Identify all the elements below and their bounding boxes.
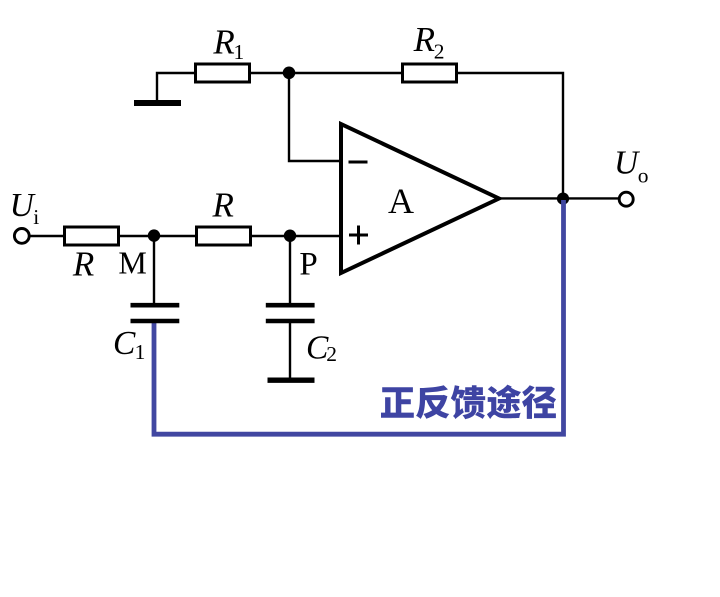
terminal Ui [14,229,29,244]
wire node down to inverting input [289,73,341,161]
svg-text:2: 2 [326,342,337,366]
op-amp minus pin label [349,161,368,164]
wire opamp output to terminal [499,197,620,199]
wire C2 bottom to ground bar [289,323,291,379]
ground (top-left) [134,100,181,106]
resistor R2 [403,64,457,82]
svg-text:M: M [118,245,146,281]
label 正反馈途径 (positive feedback path, drawn as glyph outlines) [381,385,556,420]
capacitor C1 [131,305,180,321]
wire R1 to R2 through node [250,72,402,74]
wire Ui terminal to R [29,235,64,237]
svg-text:1: 1 [135,340,146,364]
svg-text:1: 1 [234,40,245,64]
svg-text:i: i [33,205,39,229]
svg-text:C: C [113,325,136,362]
wire R2 right to corner [457,73,563,198]
op-amp plus pin label [349,226,368,245]
node output [557,193,569,205]
svg-text:R: R [72,244,94,283]
node junction R1/R2 [283,67,296,80]
ground bar under C2 [268,378,315,383]
svg-text:R: R [413,20,435,59]
terminal Uo [619,192,633,206]
wire R to R2nd through node M [118,235,196,237]
node P [284,230,296,242]
resistor R1 [196,64,250,82]
wire 2nd R to + input through node P [251,235,341,237]
node M [148,229,160,241]
capacitor C2 [266,305,315,321]
op-amp U1 [341,124,499,273]
wire node M down to C1 [153,236,155,303]
resistor R (second) [197,227,251,245]
svg-text:P: P [299,247,317,283]
svg-text:o: o [638,164,649,188]
wire ground stub to R1 [157,73,195,101]
resistor R (input) [65,227,119,245]
positive feedback path (blue wire) [154,200,564,434]
wire node P down to C2 [289,236,291,303]
svg-text:R: R [212,185,234,224]
svg-text:R: R [212,22,234,61]
svg-text:2: 2 [434,40,445,64]
svg-text:A: A [388,181,414,221]
